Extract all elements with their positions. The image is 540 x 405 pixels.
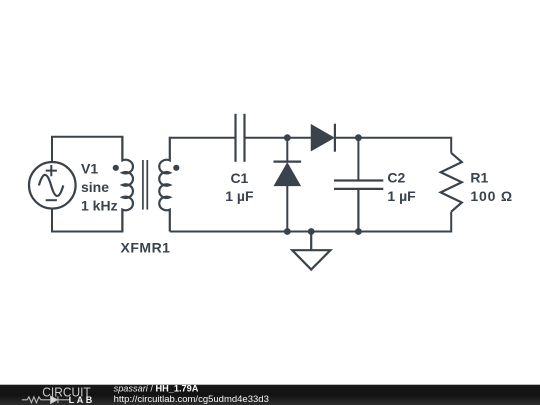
svg-text:XFMR1: XFMR1	[121, 240, 171, 256]
svg-text:sine: sine	[81, 179, 109, 195]
svg-text:1 µF: 1 µF	[387, 188, 416, 204]
wire left loop top	[52, 137, 122, 162]
footer bar	[0, 385, 540, 405]
svg-text:LAB: LAB	[69, 395, 95, 405]
voltage source V1	[29, 162, 76, 209]
node bottom C2 junction	[355, 228, 362, 235]
label C2	[387, 169, 416, 203]
svg-text:spassari / HH_1.79A: spassari / HH_1.79A	[114, 384, 199, 394]
capacitor C1	[236, 114, 245, 162]
node top diode junction	[284, 134, 291, 141]
svg-text:1 µF: 1 µF	[225, 188, 254, 204]
svg-text:V1: V1	[81, 161, 98, 177]
diode D2	[274, 162, 302, 232]
transformer XFMR1 phase dots	[113, 165, 119, 171]
logo circuit line with resistor and diode	[22, 396, 70, 404]
node bottom diode junction	[284, 228, 291, 235]
svg-text:C1: C1	[230, 170, 248, 186]
label C1	[225, 170, 254, 204]
node top C2 junction	[355, 134, 362, 141]
node ground junction	[308, 228, 315, 235]
svg-text:http://circuitlab.com/cg5udmd4: http://circuitlab.com/cg5udmd4e33d3	[114, 394, 269, 405]
label R1	[470, 169, 512, 203]
svg-text:100 Ω: 100 Ω	[470, 188, 512, 204]
resistor R1	[441, 153, 462, 212]
wire secondary top to C1	[170, 137, 236, 139]
ground	[292, 232, 330, 270]
diode D1	[312, 124, 335, 152]
svg-text:R1: R1	[470, 169, 488, 185]
wire C2 branch	[357, 138, 359, 181]
wire R1 bottom	[170, 212, 451, 232]
wire left loop bottom	[52, 209, 122, 232]
svg-text:C2: C2	[387, 169, 405, 185]
wire diode D2 branch	[286, 138, 288, 162]
wire C1 to diode D1	[245, 137, 312, 139]
transformer XFMR1 primary winding	[122, 137, 133, 232]
capacitor C2	[334, 181, 383, 232]
transformer XFMR1 core	[143, 160, 147, 210]
svg-text:1 kHz: 1 kHz	[81, 197, 118, 213]
transformer XFMR1 secondary winding	[159, 137, 170, 232]
wire D1 to R1 top	[335, 138, 451, 153]
label V1	[81, 161, 118, 214]
